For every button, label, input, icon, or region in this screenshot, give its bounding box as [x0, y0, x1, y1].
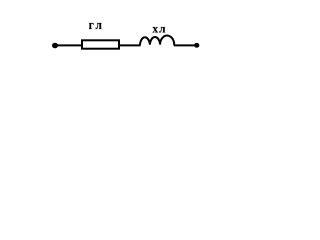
wire: resistor to inductor — [120, 44, 141, 46]
inductor xл — [140, 36, 174, 46]
right terminal node — [194, 43, 199, 48]
value label rл (resistor): glyph л — [96, 23, 102, 29]
left terminal node — [52, 43, 58, 49]
value label rл (resistor): glyph г — [89, 23, 94, 29]
wire: left terminal to resistor — [55, 44, 82, 46]
wire: inductor to right terminal — [174, 44, 196, 46]
resistor rл — [82, 40, 119, 48]
value label xл (inductor): glyph х — [153, 27, 159, 32]
value label xл (inductor): glyph л — [159, 27, 165, 33]
